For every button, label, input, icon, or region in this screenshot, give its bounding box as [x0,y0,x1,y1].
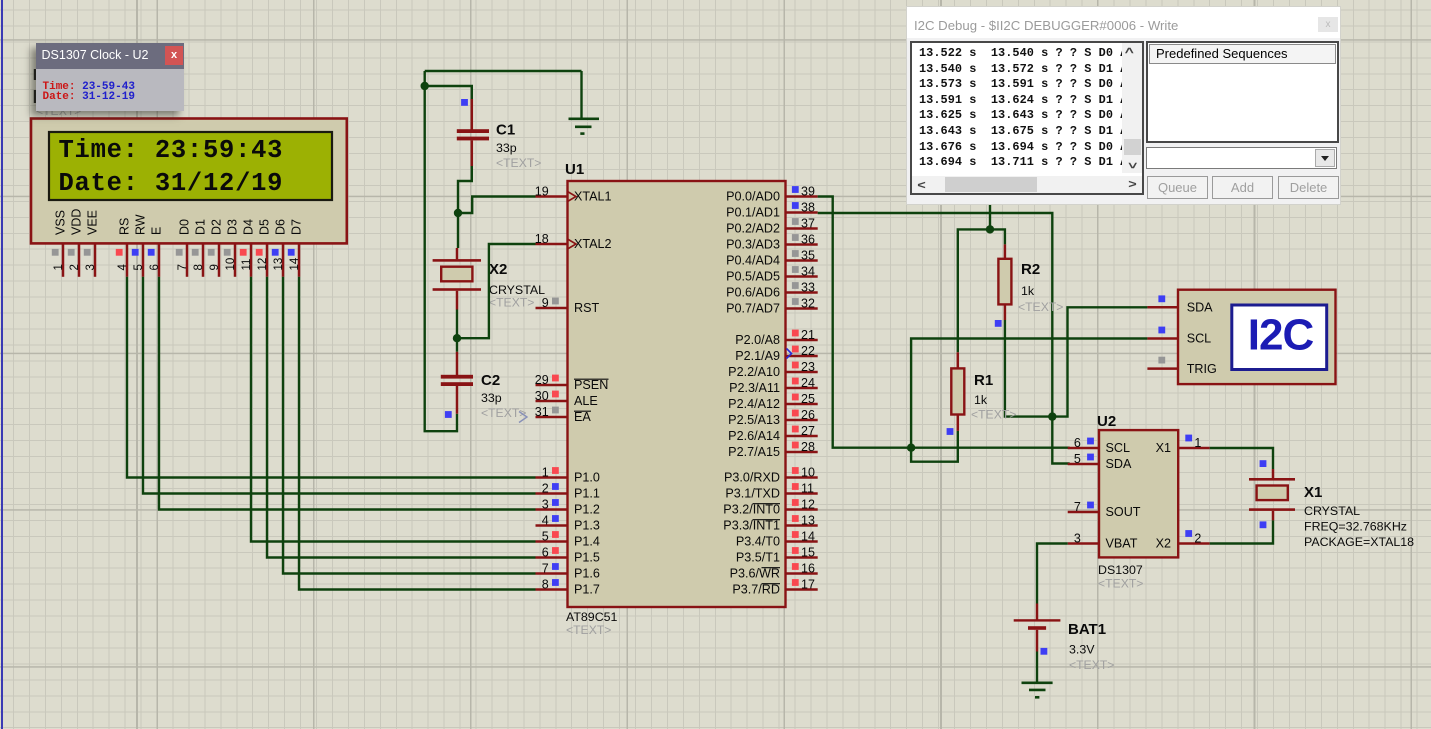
U1 pin 3 state square [552,499,559,506]
stray marker near EA pin [519,412,527,423]
svg-text:I2C: I2C [1248,311,1314,360]
U1 pin 19 clock marker [568,192,577,202]
svg-text:16: 16 [801,562,815,576]
LCD pin 1 (VSS) stub [62,243,65,276]
node XTAL2 junction [453,334,461,342]
LCD pin 12 state square [256,249,263,256]
U1 pin 15 (P3.5/T1) stub [786,556,818,559]
wire R2 bottom to SDA net [1005,320,1052,417]
LCD pin 7 (D0) stub [186,243,189,276]
U1 pin 10 state square [792,467,799,474]
U1 pin 33 state square [792,282,799,289]
svg-text:P3.7/RD: P3.7/RD [732,583,780,597]
U1 pin 15 state square [792,547,799,554]
svg-text:<TEXT>: <TEXT> [496,156,541,170]
U2 pin 7 state square [1087,502,1094,509]
U1 pin 37 state square [792,218,799,225]
LCD pin 3 (VEE) stub [94,243,97,276]
U1 pin 34 state square [792,266,799,273]
svg-text:C2: C2 [481,372,500,389]
svg-text:D4: D4 [242,219,256,235]
I2C Debug list text [919,46,1127,171]
svg-text:Date: 31/12/19: Date: 31/12/19 [59,169,284,198]
svg-text:P1.1: P1.1 [574,487,600,501]
svg-text:D6: D6 [274,219,288,235]
U1 pin 39 state square [792,186,799,193]
svg-text:Time: 23:59:43: Time: 23:59:43 [59,136,284,165]
svg-text:5: 5 [542,530,549,544]
U1 pin 31 state square [552,407,559,414]
svg-text:P2.3/A11: P2.3/A11 [729,381,780,395]
U1 pin 30 (ALE) stub [536,400,568,403]
U1 pin 8 state square [552,579,559,586]
LCD pin 12 (D5) stub [266,243,269,276]
I2C debugger pin TRIG state square [1158,357,1165,364]
U1 pin 26 (P2.5/A13) stub [786,419,818,422]
I2C Debug window close button [1318,17,1338,32]
svg-text:8: 8 [542,578,549,592]
U1 pin 23 (P2.2/A10) stub [786,371,818,374]
svg-text:25: 25 [801,392,815,406]
crystal X2 bottom pin stub [456,291,459,310]
horizontal scrollbar [912,176,1142,193]
U1 pin 27 (P2.6/A14) stub [786,435,818,438]
svg-text:RST: RST [574,301,599,315]
U1 pin 25 state square [792,394,799,401]
U1 pin 11 (P3.1/TXD) stub [786,492,818,495]
sheet border [1,0,3,729]
svg-text:<TEXT>: <TEXT> [481,406,526,420]
wire C1 top branch [425,86,472,100]
svg-text:1: 1 [53,264,65,270]
U1 pin 13 state square [792,515,799,522]
svg-text:12: 12 [257,258,269,271]
LCD pin 5 (RW) stub [142,243,145,276]
I2C debugger pin SCL stub [1147,337,1178,340]
wire SDA net P0.1 to U2 SDA [818,213,1070,464]
svg-text:AT89C51: AT89C51 [566,610,618,624]
crystal X2 top pin stub [456,248,459,259]
svg-text:4: 4 [117,264,129,271]
wire LCD D7 to P1.7 [299,277,536,590]
U1 pin 2 state square [552,483,559,490]
svg-text:SCL: SCL [1106,441,1131,455]
LCD pin 10 state square [224,249,231,256]
U2 pin 5 state square [1087,454,1094,461]
svg-text:U2: U2 [1097,413,1116,430]
vertical scrollbar [1122,43,1142,173]
U1 pin 33 (P0.6/AD6) stub [786,291,818,294]
svg-text:6: 6 [1074,436,1081,450]
svg-text:P1.5: P1.5 [574,551,600,565]
resistor R1 state square [947,428,954,435]
U1 pin 14 (P3.4/T0) stub [786,540,818,543]
U1 pin 5 state square [552,531,559,538]
U1 pin 12 state square [792,499,799,506]
svg-text:XTAL1: XTAL1 [574,190,612,204]
RTC U2 DS1307 body [1099,430,1178,557]
ground symbol top [580,71,582,118]
U1 pin 17 (P3.7/RD) stub [786,588,818,591]
popup window DS1307 Clock - U2 [36,43,185,111]
U2 pin 3 (VBAT) stub [1068,542,1099,545]
LCD pin 14 state square [288,249,295,256]
svg-text:VBAT: VBAT [1106,537,1138,551]
U1 pin 16 state square [792,563,799,570]
U1 pin 23 state square [792,362,799,369]
U1 pin 5 (P1.4) stub [536,540,568,543]
wire LCD D6 to P1.6 [283,277,536,574]
svg-text:D7: D7 [290,219,304,235]
svg-text:P0.3/AD3: P0.3/AD3 [726,238,780,252]
node XTAL1 junction [454,209,462,217]
svg-text:X1: X1 [1304,484,1322,501]
resistor R2 [998,259,1011,305]
LCD pin 6 state square [148,249,155,256]
svg-text:BAT1: BAT1 [1068,621,1106,638]
battery BAT1 [1014,619,1061,621]
svg-text:3: 3 [1074,532,1081,546]
wire gnd rail top [425,70,582,72]
svg-text:9: 9 [209,264,221,270]
svg-text:5: 5 [133,264,145,270]
svg-text:32: 32 [801,297,815,311]
svg-text:D5: D5 [258,219,272,235]
U1 pin 22 (P2.1/A9) stub [786,355,818,358]
svg-text:15: 15 [801,546,815,560]
U1 pin 1 state square [552,467,559,474]
svg-text:DS1307: DS1307 [1098,563,1143,577]
svg-text:PACKAGE=XTAL18: PACKAGE=XTAL18 [1304,535,1414,549]
U1 pin 31 (EA) stub [536,416,568,419]
U1 pin 21 state square [792,330,799,337]
svg-text:P0.2/AD2: P0.2/AD2 [726,222,780,236]
svg-text:14: 14 [289,257,301,270]
wire U2 X1 to crystal X1 [1210,448,1273,469]
LCD pin 10 (D3) stub [234,243,237,276]
U1 pin 18 (XTAL2) stub [536,243,568,246]
svg-text:38: 38 [801,201,815,215]
svg-text:<TEXT>: <TEXT> [1098,577,1143,591]
U1 pin 19 (XTAL1) stub [536,195,568,198]
svg-text:U1: U1 [565,161,584,178]
wire U2 VBAT to battery [1037,544,1068,604]
battery BAT1 top pin stub [1036,604,1039,620]
capacitor C1 state square [461,99,468,106]
svg-text:TRIG: TRIG [1187,362,1217,376]
svg-text:SDA: SDA [1106,457,1132,471]
LCD pin 4 state square [116,249,123,256]
svg-text:P2.5/A13: P2.5/A13 [728,413,780,427]
svg-text:37: 37 [801,217,815,231]
svg-text:P1.7: P1.7 [574,583,600,597]
I2C debugger logo box [1232,305,1327,370]
LCD pin 8 state square [192,249,199,256]
U1 pin 6 state square [552,547,559,554]
node SDA branch [1048,412,1056,420]
svg-text:P1.3: P1.3 [574,519,600,533]
svg-text:CRYSTAL: CRYSTAL [1304,504,1360,518]
svg-text:P3.1/TXD: P3.1/TXD [725,487,780,501]
svg-text:18: 18 [535,232,549,246]
U1 pin 38 (P0.1/AD1) stub [786,211,818,214]
wire LCD E to P1.2 [159,277,536,510]
svg-text:D3: D3 [226,219,240,235]
I2C Debug window [906,6,1341,205]
svg-text:VSS: VSS [54,210,68,235]
I2C debugger pin SCL state square [1158,327,1165,334]
U1 pin 14 state square [792,531,799,538]
svg-text:EA: EA [574,410,591,424]
svg-text:D0: D0 [178,219,192,235]
svg-text:P3.2/INT0: P3.2/INT0 [723,503,780,517]
capacitor C1 top pin stub [471,99,474,130]
svg-text:P2.2/A10: P2.2/A10 [728,365,780,379]
svg-text:P2.4/A12: P2.4/A12 [728,397,780,411]
svg-text:7: 7 [1074,500,1081,514]
LCD pin 1 state square [52,249,59,256]
crystal X1 top pin stub [1272,469,1275,480]
svg-text:3: 3 [85,264,97,270]
svg-text:3: 3 [542,498,549,512]
resistor R2 state square [995,320,1002,327]
svg-text:7: 7 [542,562,549,576]
U1 pin 27 state square [792,426,799,433]
U2 pin 2 (X2) stub [1178,542,1210,545]
LCD pin 13 state square [272,249,279,256]
I2C debugger body [1178,290,1336,384]
wire VCC rail to R1 R2 tops [958,229,1005,352]
svg-text:2: 2 [1194,532,1201,546]
U1 pin 7 (P1.6) stub [536,572,568,575]
crystal X1 bottom state square [1260,521,1267,528]
wire LCD D4 to P1.4 [251,277,536,542]
svg-text:X2: X2 [1156,537,1171,551]
svg-text:P0.1/AD1: P0.1/AD1 [726,206,780,220]
crystal X1 [1249,478,1295,481]
LCD pin 3 state square [84,249,91,256]
U1 pin 28 state square [792,442,799,449]
wire SDA branch to I2C debugger [1052,307,1147,416]
svg-text:FREQ=32.768KHz: FREQ=32.768KHz [1304,520,1407,534]
U1 pin 9 state square [552,298,559,305]
svg-text:7: 7 [177,264,189,270]
svg-text:13: 13 [801,514,815,528]
svg-text:P2.1/A9: P2.1/A9 [735,349,780,363]
U2 pin 5 (SDA) stub [1068,463,1099,466]
U1 pin 28 (P2.7/A15) stub [786,451,818,454]
capacitor C1 [457,129,489,133]
svg-text:SOUT: SOUT [1106,505,1141,519]
U1 pin 35 state square [792,250,799,257]
U1 pin 18 clock marker [568,239,577,249]
U2 pin 2 state square [1185,530,1192,537]
LCD pin 8 (D1) stub [202,243,205,276]
LCD pin 4 (RS) stub [126,243,129,276]
I2C Debug list box [910,41,1144,195]
capacitor C1 bottom pin stub [471,140,474,166]
U1 pin 29 state square [552,375,559,382]
U2 pin 1 (X1) stub [1178,447,1210,450]
sequence combo box [1146,147,1337,169]
svg-text:1: 1 [1194,436,1201,450]
U1 pin 34 (P0.5/AD5) stub [786,275,818,278]
battery BAT1 bottom pin stub [1036,630,1039,652]
svg-text:P1.4: P1.4 [574,535,600,549]
svg-text:33p: 33p [481,391,502,405]
svg-text:10: 10 [801,466,815,480]
svg-text:19: 19 [535,185,549,199]
svg-text:P1.2: P1.2 [574,503,600,517]
U1 pin 22 state square [792,346,799,353]
svg-text:3.3V: 3.3V [1069,643,1095,657]
U1 pin 38 state square [792,202,799,209]
svg-text:ALE: ALE [574,394,598,408]
I2C debugger pin SDA stub [1147,306,1178,309]
U1 pin 16 (P3.6/WR) stub [786,572,818,575]
U2 pin 7 (SOUT) stub [1068,511,1099,514]
wire SCL branch to I2C debugger [911,339,1147,448]
svg-text:14: 14 [801,530,815,544]
LCD pin 11 (D4) stub [250,243,253,276]
svg-text:<TEXT>: <TEXT> [1069,658,1114,672]
node SCL branch [907,444,915,452]
svg-text:P2.7/A15: P2.7/A15 [728,445,780,459]
svg-text:VEE: VEE [86,210,100,235]
svg-text:P2.0/A8: P2.0/A8 [735,333,780,347]
svg-text:24: 24 [801,376,815,390]
resistor R1 top pin stub [957,352,960,368]
svg-text:P3.5/T1: P3.5/T1 [736,551,780,565]
svg-text:P1.6: P1.6 [574,567,600,581]
node VCC junction [986,225,994,233]
U1 pin 37 (P0.2/AD2) stub [786,227,818,230]
svg-text:27: 27 [801,424,815,438]
U1 pin 11 state square [792,483,799,490]
LCD pin 9 (D2) stub [218,243,221,276]
capacitor C2 state square [445,411,452,418]
svg-text:5: 5 [1074,452,1081,466]
U1 pin 13 (P3.3/INT1) stub [786,524,818,527]
svg-text:29: 29 [535,373,549,387]
U1 pin 35 (P0.4/AD4) stub [786,259,818,262]
capacitor C2 bottom pin stub [456,386,459,414]
U2 pin 1 state square [1185,435,1192,442]
svg-text:2: 2 [69,264,81,270]
popup body [36,69,185,112]
svg-text:30: 30 [535,389,549,403]
wire crystal X1 to U2 X2 [1210,520,1273,543]
popup close button [165,46,183,65]
svg-text:X1: X1 [1156,441,1171,455]
LCD pin 7 state square [176,249,183,256]
svg-text:35: 35 [801,249,815,263]
svg-text:8: 8 [193,264,205,270]
U1 pin 1 (P1.0) stub [536,476,568,479]
popup title bar [36,43,185,69]
svg-text:PSEN: PSEN [574,378,608,392]
U1 pin 8 (P1.7) stub [536,588,568,591]
svg-text:28: 28 [801,440,815,454]
LCD hidden label fragment [34,69,36,80]
svg-text:P3.6/WR: P3.6/WR [730,567,780,581]
LCD pin 11 state square [240,249,247,256]
svg-text:RS: RS [118,218,132,235]
U1 pin 6 (P1.5) stub [536,556,568,559]
svg-text:39: 39 [801,185,815,199]
ground symbol bottom [1036,652,1038,682]
Queue button [1147,176,1208,199]
svg-text:XTAL2: XTAL2 [574,237,612,251]
svg-text:P1.0: P1.0 [574,471,600,485]
resistor R1 bottom pin stub [957,415,960,431]
U1 pin 12 (P3.2/INT0) stub [786,508,818,511]
svg-text:R2: R2 [1021,261,1040,278]
svg-text:P3.0/RXD: P3.0/RXD [724,471,780,485]
LCD pin 13 (D6) stub [282,243,285,276]
svg-text:17: 17 [801,578,815,592]
svg-text:R1: R1 [974,372,993,389]
svg-text:<TEXT>: <TEXT> [566,623,611,637]
Delete button [1278,176,1339,199]
crystal X2 [433,259,481,262]
U2 pin 6 state square [1087,438,1094,445]
I2C Debug window title [914,18,1178,33]
svg-text:11: 11 [241,259,253,271]
svg-text:26: 26 [801,408,815,422]
svg-text:P2.6/A14: P2.6/A14 [728,429,780,443]
svg-text:P0.6/AD6: P0.6/AD6 [726,286,780,300]
svg-text:<TEXT>: <TEXT> [1018,300,1063,314]
wire LCD RS to P1.0 [127,277,536,478]
LCD screen [49,132,332,200]
svg-text:1: 1 [542,466,549,480]
svg-text:13: 13 [273,258,285,271]
U1 pin 10 (P3.0/RXD) stub [786,476,818,479]
wire VCC drop [989,203,991,230]
svg-text:33: 33 [801,281,815,295]
U1 pin 26 state square [792,410,799,417]
resistor R1 [951,368,964,414]
capacitor C2 [441,375,473,379]
resistor R2 top pin stub [1004,244,1007,259]
U1 pin 9 (RST) stub [536,307,568,310]
LCD pin 14 (D7) stub [298,243,301,276]
I2C debugger pin TRIG stub [1147,367,1178,370]
U1 pin 32 (P0.7/AD7) stub [786,307,818,310]
crystal X1 top state square [1260,460,1267,467]
svg-text:21: 21 [801,328,815,342]
U1 pin 21 (P2.0/A8) stub [786,339,818,342]
LCD pin 6 (E) stub [158,243,161,276]
capacitor C2 top pin stub [456,352,459,375]
node C1 top junction [421,82,429,90]
wire SCL net P0.0 to U2 SCL [818,197,1070,448]
svg-text:<TEXT>: <TEXT> [971,408,1016,422]
svg-text:10: 10 [225,258,237,271]
svg-text:E: E [150,227,164,235]
U1 pin 24 (P2.3/A11) stub [786,387,818,390]
battery BAT1 state square [1041,648,1048,655]
svg-text:RW: RW [134,214,148,235]
svg-text:X2: X2 [489,261,507,278]
U1 pin 4 (P1.3) stub [536,524,568,527]
U1 pin 4 state square [552,515,559,522]
svg-text:P0.7/AD7: P0.7/AD7 [726,302,780,316]
svg-text:6: 6 [149,264,161,270]
wire X2 bottom to XTAL2 node [456,310,458,352]
LCD display LCD1 body [31,119,347,244]
